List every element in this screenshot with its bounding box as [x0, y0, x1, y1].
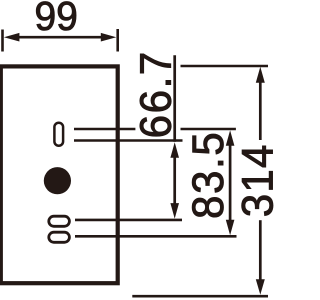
mounting slot (vertical stadium) — [54, 123, 63, 146]
dim 314: upper segment with up arrow — [259, 78, 262, 140]
dim 99: dimension line — [16, 36, 104, 39]
dim 314: lower segment with down arrow — [259, 220, 262, 283]
dim arrows between slot lower leader and oval upper leader — [173, 155, 176, 206]
slot leader line lower — [74, 139, 183, 142]
dim 99: left arrowhead — [4, 33, 20, 42]
oval leader line lower — [75, 235, 237, 238]
top datum line — [181, 65, 269, 68]
oval leader line upper — [75, 219, 182, 222]
dim 99: right tick — [116, 29, 119, 52]
slot leader line upper, left segment — [74, 128, 135, 131]
bottom datum line — [132, 295, 268, 298]
dim 83.5: vertical line with arrows — [229, 143, 232, 222]
dim 83.5: label (rotated) — [192, 134, 223, 217]
knockout circle (filled) — [44, 167, 71, 194]
dim 314: label (rotated) — [242, 146, 273, 216]
dim 66.7: vertical line — [173, 55, 176, 142]
dim 99: left tick — [1, 30, 4, 52]
hole oval 1 (horizontal stadium) — [49, 216, 70, 226]
dim 66.7: label (rotated) — [140, 54, 171, 136]
hole oval 2 (horizontal stadium) — [49, 232, 70, 242]
dim 99: right arrowhead — [101, 33, 117, 42]
dim 99: label — [36, 2, 76, 31]
fixture body rectangle — [1, 66, 118, 283]
slot leader line upper, right segment — [181, 128, 236, 131]
